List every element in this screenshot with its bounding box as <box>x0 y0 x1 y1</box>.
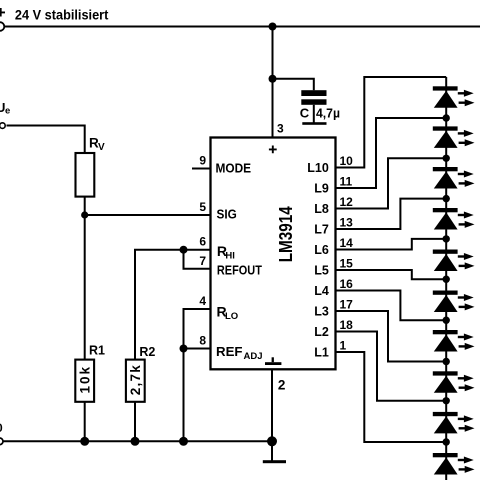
pin label L6 <box>314 243 329 257</box>
svg-text:L6: L6 <box>314 243 329 257</box>
node rail/R2 junction <box>131 437 140 446</box>
pin label SIG <box>217 207 237 222</box>
node pin3/C junction <box>269 75 277 83</box>
node LED junction D1-D2 <box>443 114 450 121</box>
node SIG junction <box>81 211 88 218</box>
wire pin 17 (L3) to junction D7-D8 <box>336 311 447 362</box>
wire pin 10 (L10) to L10 top <box>336 77 447 168</box>
svg-text:8: 8 <box>199 334 206 348</box>
node LED junction D3-D4 <box>443 195 450 202</box>
pin number 3 <box>277 122 284 136</box>
svg-text:+: + <box>0 3 6 22</box>
node LED junction D6-D7 <box>443 317 450 324</box>
svg-text:6: 6 <box>199 235 206 249</box>
pin label L8 <box>314 202 329 216</box>
svg-text:L1: L1 <box>314 345 329 359</box>
svg-text:L5: L5 <box>314 263 329 277</box>
node LED junction D2-D3 <box>443 155 450 162</box>
svg-text:LM3914: LM3914 <box>275 206 296 263</box>
LED D8 <box>433 371 475 393</box>
svg-text:3: 3 <box>277 122 284 136</box>
label 0 <box>0 421 3 435</box>
pin label L2 <box>314 325 329 339</box>
node +24V/pin3 junction <box>269 23 277 31</box>
node LED junction D5-D6 <box>443 276 450 283</box>
pin number 11 <box>340 175 353 189</box>
terminal +24V <box>0 22 4 31</box>
svg-text:16: 16 <box>340 277 354 291</box>
wire pin 2 to ground <box>271 369 273 461</box>
label Ue <box>0 100 10 117</box>
wire pin 15 (L5) to junction D5-D6 <box>336 270 447 279</box>
svg-text:L7: L7 <box>314 222 329 236</box>
wire pin 13 (L7) to junction D3-D4 <box>336 199 447 229</box>
wire RV bottom to R1 top (SIG node) <box>84 197 86 360</box>
pin number 12 <box>340 195 354 209</box>
terminal Ue <box>0 123 5 129</box>
svg-text:L4: L4 <box>314 284 329 298</box>
node LED junction D4-D5 <box>443 235 450 242</box>
svg-text:10k: 10k <box>78 366 93 393</box>
pin label L3 <box>314 304 329 318</box>
svg-text:REF: REF <box>216 344 243 359</box>
LED D1 <box>433 86 475 108</box>
pin label RLO <box>217 304 239 323</box>
wire capacitor branch <box>273 79 314 90</box>
svg-text:7: 7 <box>199 254 206 268</box>
pin number 15 <box>340 257 354 271</box>
LED D6 <box>433 291 475 313</box>
pin label REFOUT <box>217 262 262 277</box>
svg-text:MODE: MODE <box>216 160 252 175</box>
svg-text:L3: L3 <box>314 304 329 318</box>
pin number 2 <box>278 377 286 392</box>
wire LED chain vertical <box>445 77 447 480</box>
svg-text:11: 11 <box>340 175 353 189</box>
wire capacitor bottom lead <box>313 105 315 123</box>
svg-text:LO: LO <box>225 311 238 322</box>
pin number 4 <box>199 294 206 308</box>
svg-text:18: 18 <box>340 318 354 332</box>
svg-text:1: 1 <box>340 339 347 353</box>
svg-text:14: 14 <box>340 236 354 250</box>
svg-text:4,7µ: 4,7µ <box>316 105 340 120</box>
svg-text:4: 4 <box>199 294 206 308</box>
wire 0V ground rail <box>2 440 272 442</box>
svg-text:13: 13 <box>340 216 354 230</box>
svg-text:SIG: SIG <box>217 207 237 222</box>
svg-text:5: 5 <box>199 200 206 214</box>
svg-text:10: 10 <box>340 154 354 168</box>
node rail/pin2 junction <box>267 436 277 446</box>
resistor R1 <box>75 343 105 402</box>
capacitor C 4.7u <box>300 90 340 120</box>
pin number 17 <box>340 298 354 312</box>
svg-text:REFOUT: REFOUT <box>217 262 262 277</box>
LED D3 <box>433 167 475 189</box>
wire Ue input to RV <box>7 126 85 154</box>
plus sign inside IC at pin 3 <box>269 146 277 154</box>
svg-text:17: 17 <box>340 298 354 312</box>
wire pin 11 (L9) to junction D1-D2 <box>336 118 447 188</box>
svg-text:24 V stabilisiert: 24 V stabilisiert <box>15 7 109 23</box>
wire pin 4 to pin 8 to 0V rail <box>184 309 211 441</box>
svg-text:ADJ: ADJ <box>244 351 263 362</box>
label LM3914 <box>275 206 296 263</box>
pin number 13 <box>340 216 354 230</box>
node rail/R1 junction <box>80 437 89 446</box>
svg-text:e: e <box>5 106 10 117</box>
pin number 16 <box>340 277 354 291</box>
node rail/pin4-8 junction <box>179 437 188 446</box>
LED D5 <box>433 250 475 272</box>
wire pin 18 (L2) to junction D8-D9 <box>336 332 447 401</box>
node LED junction D9-D10 <box>443 438 450 445</box>
LED D7 <box>433 330 475 352</box>
svg-text:R1: R1 <box>89 343 105 357</box>
pin label L4 <box>314 284 329 298</box>
svg-text:2: 2 <box>278 377 286 392</box>
op-amp U1 LM3914 IC body <box>211 138 336 370</box>
svg-text:L2: L2 <box>314 325 329 339</box>
pin number 18 <box>340 318 354 332</box>
wire pin 6 to R2 top <box>135 250 211 360</box>
pin label L10 <box>307 161 329 175</box>
ground under capacitor <box>302 122 326 125</box>
wire pin3 vertical from +24V rail to IC <box>272 27 274 138</box>
node LED junction D7-D8 <box>443 358 450 365</box>
wire pin 16 (L4) to junction D6-D7 <box>336 291 447 321</box>
pin number 1 <box>340 339 347 353</box>
wire R1 bottom to 0V rail <box>84 402 86 442</box>
node LED junction D8-D9 <box>443 397 450 404</box>
LED D9 <box>433 412 475 434</box>
svg-text:C: C <box>300 105 310 120</box>
resistor RV <box>76 136 106 197</box>
wire SIG node to pin 5 <box>85 214 211 216</box>
wire +24V top rail <box>4 26 480 28</box>
pin number 9 <box>199 154 206 168</box>
svg-text:2,7k: 2,7k <box>128 365 143 395</box>
pin label L1 <box>314 345 329 359</box>
LED D4 <box>433 208 475 230</box>
pin label L5 <box>314 263 329 277</box>
pin number 10 <box>340 154 354 168</box>
wire pin 9 stub <box>192 168 211 170</box>
minus sign inside IC at pin 2 <box>265 357 281 365</box>
wire pin6-pin7 bracket <box>184 250 211 269</box>
resistor R2 <box>126 345 156 402</box>
svg-text:9: 9 <box>199 154 206 168</box>
wire R2 bottom to 0V rail <box>134 402 136 442</box>
pin label L9 <box>314 181 329 195</box>
svg-text:V: V <box>98 142 105 153</box>
LED D10 <box>433 453 475 475</box>
pin label MODE <box>216 160 252 175</box>
svg-text:L10: L10 <box>307 161 329 175</box>
pin label REFADJ <box>216 344 263 362</box>
node pin8 junction <box>180 345 188 353</box>
wire pin 1 (L1) to junction D9-D10 <box>336 352 447 442</box>
node pin6/pin7 junction <box>180 246 188 254</box>
wire pin 14 (L6) to junction D4-D5 <box>336 239 447 250</box>
svg-text:L9: L9 <box>314 181 329 195</box>
pin number 5 <box>199 200 206 214</box>
pin number 6 <box>199 235 206 249</box>
pin number 14 <box>340 236 354 250</box>
label 24 V stabilisiert <box>15 7 109 23</box>
wire pin 12 (L8) to junction D2-D3 <box>336 158 447 208</box>
pin label L7 <box>314 222 329 236</box>
pin label RHI <box>217 243 235 261</box>
LED D2 <box>433 126 475 147</box>
pin number 8 <box>199 334 206 348</box>
ground under pin 2 <box>263 460 286 463</box>
terminal 0V <box>0 438 3 445</box>
svg-text:R2: R2 <box>139 345 155 359</box>
svg-text:L8: L8 <box>314 202 329 216</box>
svg-text:HI: HI <box>225 250 235 261</box>
pin number 7 <box>199 254 206 268</box>
svg-text:15: 15 <box>340 257 354 271</box>
svg-text:12: 12 <box>340 195 354 209</box>
label + polarity <box>0 3 6 22</box>
svg-text:0: 0 <box>0 421 3 435</box>
